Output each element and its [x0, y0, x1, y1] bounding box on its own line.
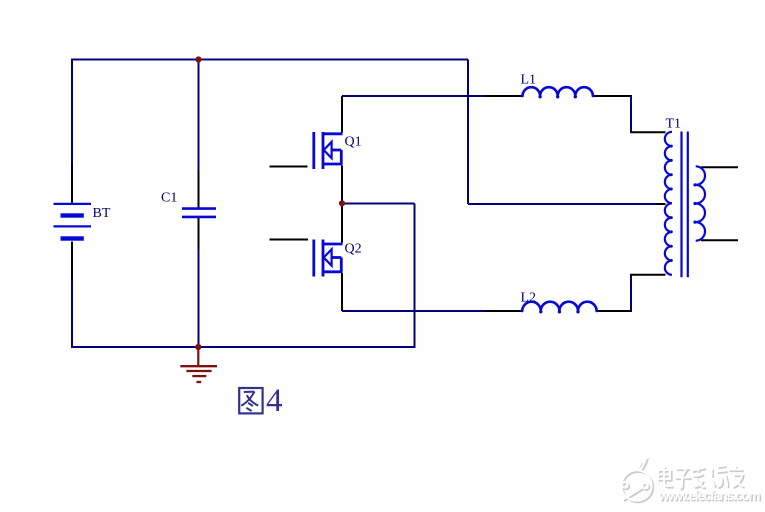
svg-text:Q1: Q1 [345, 134, 362, 149]
svg-text:T1: T1 [666, 117, 682, 132]
svg-text:L2: L2 [521, 290, 537, 305]
svg-text:Q2: Q2 [345, 242, 362, 257]
svg-text:C1: C1 [161, 191, 177, 206]
svg-text:4: 4 [266, 383, 283, 419]
svg-text:www.elecfans.com: www.elecfans.com [658, 488, 761, 503]
svg-text:L1: L1 [521, 73, 537, 88]
svg-text:BT: BT [93, 206, 111, 221]
